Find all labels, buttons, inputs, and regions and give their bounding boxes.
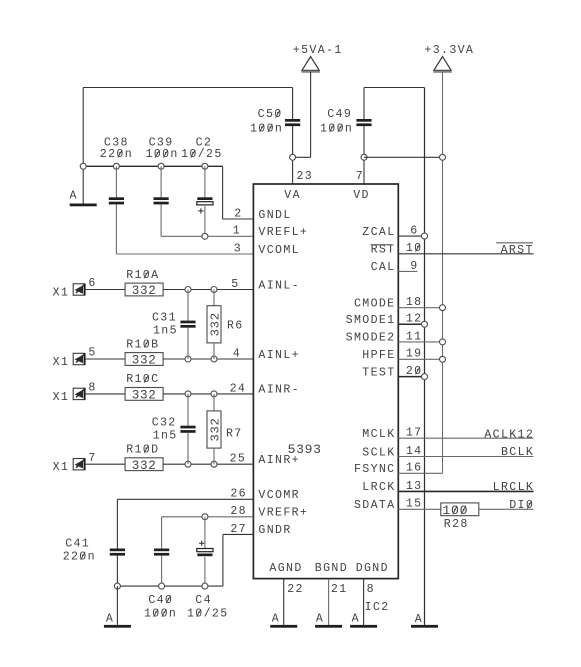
wire pin 22 AGND (283, 579, 285, 625)
node SMODE2 to +3.3VA (440, 339, 446, 345)
wire bottom bus (117, 585, 222, 587)
svg-text:R6: R6 (227, 320, 244, 333)
node C50 junction (290, 154, 296, 160)
wire X1-8 to R10C (85, 393, 125, 395)
polarity + of C4 (199, 542, 204, 544)
svg-text:220n: 220n (100, 148, 133, 161)
svg-text:23: 23 (297, 170, 314, 183)
connector X1 pin 5 (73, 353, 85, 364)
svg-text:HPFE: HPFE (362, 349, 395, 362)
svg-text:3: 3 (234, 242, 242, 255)
wire C41 bottom (116, 556, 118, 587)
capacitor C38 (109, 197, 124, 200)
svg-text:4: 4 (233, 347, 241, 360)
svg-text:332: 332 (132, 459, 157, 473)
svg-text:TEST: TEST (362, 366, 395, 379)
wire pin 17 MCLK to ACLK12 (398, 437, 533, 439)
svg-text:X1: X1 (53, 461, 70, 474)
svg-text:25: 25 (230, 453, 247, 466)
svg-text:SMODE1: SMODE1 (346, 314, 396, 327)
svg-text:LRCK: LRCK (362, 481, 395, 494)
svg-text:332: 332 (132, 389, 157, 403)
wire R10B to IC (163, 358, 253, 360)
svg-text:FSYNC: FSYNC (354, 463, 396, 476)
wire C38 top (115, 166, 117, 197)
node R6 bottom (211, 356, 217, 362)
node C49 junction (361, 154, 367, 160)
svg-text:18: 18 (406, 296, 423, 309)
svg-text:332: 332 (132, 284, 157, 298)
wire pin 6 ZCAL (398, 235, 424, 237)
ground A BGND (315, 625, 342, 628)
svg-text:C40: C40 (148, 594, 173, 607)
wire left ground stem (82, 88, 84, 204)
wire C40 drop (161, 517, 163, 549)
svg-text:ARST: ARST (501, 244, 534, 257)
wire C49 to +3.3VA (364, 156, 443, 158)
svg-text:R10B: R10B (126, 338, 159, 351)
wire C2 bottom (204, 206, 206, 236)
supply +5VA-1 (302, 57, 319, 71)
wire pin 9 CAL stub (398, 270, 417, 272)
svg-text:C4: C4 (195, 594, 212, 607)
svg-text:C50: C50 (258, 108, 283, 121)
ground A DGND (350, 625, 377, 628)
svg-text:220n: 220n (63, 550, 96, 563)
wire C50 top (292, 88, 294, 120)
connector X1 pin 8 (73, 388, 85, 399)
wire C40 bottom (161, 556, 163, 587)
svg-text:C41: C41 (65, 538, 90, 551)
wire pin 1 VREFL+ (161, 235, 253, 237)
wire C39 top (160, 166, 162, 197)
node C40 bottom bus (159, 583, 165, 589)
wire C4 bottom (204, 557, 206, 586)
svg-text:SMODE2: SMODE2 (346, 332, 396, 345)
wire C4 drop (204, 517, 206, 549)
node C4 top (202, 514, 208, 520)
svg-text:SDATA: SDATA (354, 499, 396, 512)
svg-text:IC2: IC2 (365, 601, 390, 614)
wire R10A to IC (163, 289, 253, 291)
wire C38 bottom (115, 204, 117, 254)
svg-text:7: 7 (88, 452, 96, 465)
svg-text:1: 1 (233, 225, 241, 238)
wire C2 top (204, 166, 206, 197)
op-amp IC2 CS5393 body (253, 184, 398, 579)
resistor R10B 332 (125, 353, 163, 366)
svg-text:2: 2 (234, 207, 242, 220)
wire C49 bottom (363, 126, 365, 184)
supply +3.3VA (434, 57, 451, 71)
resistor R6 332 (207, 306, 221, 343)
wire pin 20 TEST (398, 376, 424, 378)
wire pin 13 LRCK to LRCLK (398, 490, 533, 492)
svg-text:A: A (106, 613, 114, 626)
capacitor C41 (110, 549, 125, 552)
svg-text:8: 8 (367, 583, 375, 596)
wire R10C to IC (163, 393, 253, 395)
node CMODE to +3.3VA (440, 305, 446, 311)
wire +5VA-1 stem (310, 72, 312, 157)
svg-text:DGND: DGND (356, 562, 389, 575)
svg-text:ZCAL: ZCAL (362, 226, 395, 239)
svg-text:VREFL+: VREFL+ (258, 226, 308, 239)
svg-text:C32: C32 (152, 417, 177, 430)
connector X1 pin 7 (73, 459, 85, 470)
svg-text:+5VA-1: +5VA-1 (293, 44, 343, 57)
svg-text:AINL-: AINL- (258, 279, 300, 292)
svg-text:14: 14 (406, 445, 423, 458)
node C31 bottom (185, 356, 191, 362)
polarity + of C2 (198, 210, 203, 212)
svg-text:R10D: R10D (126, 444, 159, 457)
wire R28 to DI0 (479, 508, 534, 510)
wire pin 26 VCOMR (117, 498, 253, 500)
svg-text:A: A (70, 190, 78, 203)
wire R6 bottom (213, 343, 215, 359)
svg-text:GNDL: GNDL (258, 209, 291, 222)
svg-text:5: 5 (231, 278, 239, 291)
resistor R10D 332 (125, 458, 163, 471)
svg-text:A: A (415, 613, 423, 626)
wire X1-6 to R10A (85, 289, 125, 291)
svg-text:100n: 100n (145, 148, 178, 161)
wire +3.3VA rail (442, 72, 444, 473)
svg-text:R7: R7 (226, 427, 243, 440)
resistor R10C 332 (125, 388, 163, 401)
svg-text:+3.3VA: +3.3VA (424, 44, 474, 57)
wire pin 12 SMODE1 (398, 323, 424, 325)
wire C32 top (187, 394, 189, 426)
svg-text:C31: C31 (152, 311, 177, 324)
svg-text:27: 27 (230, 523, 247, 536)
svg-text:R10C: R10C (126, 373, 159, 386)
wire top ground bus right (364, 87, 425, 89)
svg-text:VD: VD (353, 189, 370, 202)
svg-text:22: 22 (287, 583, 304, 596)
svg-text:GNDR: GNDR (258, 524, 291, 537)
svg-text:10/25: 10/25 (181, 148, 223, 161)
wire GNDL drop (222, 166, 224, 219)
node C39 bus junction (158, 163, 164, 169)
svg-text:R10A: R10A (126, 269, 159, 282)
svg-text:X1: X1 (53, 287, 70, 300)
ground A top-left (70, 204, 97, 207)
svg-text:5: 5 (88, 347, 96, 360)
svg-text:VCOML: VCOML (258, 244, 300, 257)
svg-text:7: 7 (356, 170, 364, 183)
ground A bottom-left (104, 625, 131, 628)
svg-text:VCOMR: VCOMR (258, 489, 300, 502)
svg-text:24: 24 (230, 382, 247, 395)
wire pin 14 SCLK to BCLK (398, 456, 533, 458)
wire pin 3 VCOML (116, 253, 253, 255)
node R7 bottom (211, 461, 217, 467)
wire C50 bottom (292, 126, 294, 184)
svg-text:9: 9 (410, 260, 418, 273)
capacitor C32 (180, 426, 195, 429)
node SMODE1 to ground rail (422, 321, 428, 327)
wire R10D to IC (163, 463, 253, 465)
svg-text:6: 6 (88, 277, 96, 290)
wire C31 bottom (187, 328, 189, 359)
svg-text:100n: 100n (144, 607, 177, 620)
wire C41 drop (116, 499, 118, 548)
node C32 top (185, 391, 191, 397)
node C2 to VREFL+ (202, 233, 208, 239)
wire pin 10 RST to ARST (398, 253, 533, 255)
wire R6 top (213, 290, 215, 306)
svg-text:CAL: CAL (371, 261, 396, 274)
node C38 bus junction (113, 163, 119, 169)
wire C39 bottom (160, 204, 162, 236)
svg-text:8: 8 (88, 382, 96, 395)
node ZCAL to ground rail (422, 233, 428, 239)
wire top ground bus (83, 87, 292, 89)
svg-text:ACLK12: ACLK12 (484, 428, 534, 441)
resistor R7 332 (207, 411, 221, 448)
svg-text:SCLK: SCLK (362, 446, 395, 459)
overline RST (371, 244, 392, 246)
node C32 bottom (185, 461, 191, 467)
wire ground bus 2 (83, 165, 222, 167)
svg-text:VA: VA (284, 189, 301, 202)
node C4 bottom bus (202, 583, 208, 589)
svg-text:A: A (316, 613, 324, 626)
svg-text:10/25: 10/25 (187, 607, 229, 620)
svg-text:AINR-: AINR- (258, 384, 300, 397)
wire pin 11 SMODE2 (398, 341, 442, 343)
wire pin 28 VREFR+ (162, 516, 254, 518)
svg-text:AINR+: AINR+ (258, 454, 300, 467)
svg-text:332: 332 (132, 354, 157, 368)
wire X1-7 to R10D (85, 463, 125, 465)
wire pin 21 BGND (328, 579, 330, 625)
svg-text:DI0: DI0 (509, 499, 534, 512)
wire bottom ground stem (116, 586, 118, 625)
node C2 bus junction (202, 163, 208, 169)
resistor R10A 332 (125, 283, 163, 296)
wire X1-5 to R10B (85, 358, 125, 360)
node C41 bottom bus (114, 583, 120, 589)
node bus junction (80, 163, 86, 169)
node R6 top (211, 287, 217, 293)
node HPFE to +3.3VA (440, 356, 446, 362)
svg-text:A: A (352, 613, 360, 626)
svg-text:BGND: BGND (315, 562, 348, 575)
svg-text:MCLK: MCLK (362, 428, 395, 441)
capacitor C40 (154, 549, 169, 552)
wire right ground rail (424, 88, 426, 625)
node C31 top (185, 287, 191, 293)
svg-text:BCLK: BCLK (501, 446, 534, 459)
svg-text:AINL+: AINL+ (258, 349, 300, 362)
wire C31 top (187, 290, 189, 321)
wire GNDR drop (222, 534, 224, 586)
svg-text:RST: RST (371, 244, 396, 257)
svg-text:17: 17 (406, 427, 423, 440)
wire pin 18 CMODE (398, 307, 442, 309)
wire pin 27 GNDR (223, 533, 254, 535)
svg-text:100n: 100n (320, 123, 353, 136)
svg-text:A: A (272, 613, 280, 626)
ground A AGND (270, 625, 297, 628)
wire pin 16 FSYNC (398, 472, 442, 474)
capacitor C2 polarized (197, 197, 212, 200)
capacitor C50 (285, 119, 300, 122)
capacitor C31 (180, 321, 195, 324)
wire pin 2 GNDL (223, 218, 254, 220)
resistor R28 100 (441, 503, 479, 516)
svg-text:AGND: AGND (269, 562, 302, 575)
svg-text:332: 332 (208, 417, 222, 441)
svg-text:C49: C49 (327, 108, 352, 121)
svg-text:1n5: 1n5 (153, 430, 178, 443)
svg-text:X1: X1 (53, 391, 70, 404)
svg-text:21: 21 (331, 583, 348, 596)
svg-text:R28: R28 (444, 518, 469, 531)
node TEST to ground rail (422, 374, 428, 380)
svg-text:11: 11 (406, 330, 423, 343)
svg-text:CMODE: CMODE (354, 298, 396, 311)
node +3.3VA junction (440, 154, 446, 160)
wire pin 15 SDATA to R28 (398, 508, 441, 510)
svg-text:1n5: 1n5 (153, 324, 178, 337)
ground A right (411, 625, 438, 628)
wire R7 top (213, 394, 215, 411)
svg-text:100n: 100n (250, 123, 283, 136)
capacitor C49 (356, 119, 371, 122)
wire C49 top (363, 88, 365, 120)
connector X1 pin 6 (73, 284, 85, 295)
wire pin 8 DGND (363, 579, 365, 625)
svg-text:X1: X1 (53, 356, 70, 369)
wire R7 bottom (213, 448, 215, 464)
wire C32 bottom (187, 433, 189, 464)
svg-text:VREFR+: VREFR+ (258, 507, 308, 520)
capacitor C39 (154, 197, 169, 200)
svg-text:LRCLK: LRCLK (493, 481, 535, 494)
svg-text:332: 332 (208, 312, 222, 336)
node R7 top (211, 391, 217, 397)
wire +5VA-1 to C50 (293, 156, 311, 158)
svg-text:100: 100 (442, 503, 468, 518)
wire pin 19 HPFE (398, 358, 442, 360)
capacitor C4 polarized (197, 549, 213, 552)
